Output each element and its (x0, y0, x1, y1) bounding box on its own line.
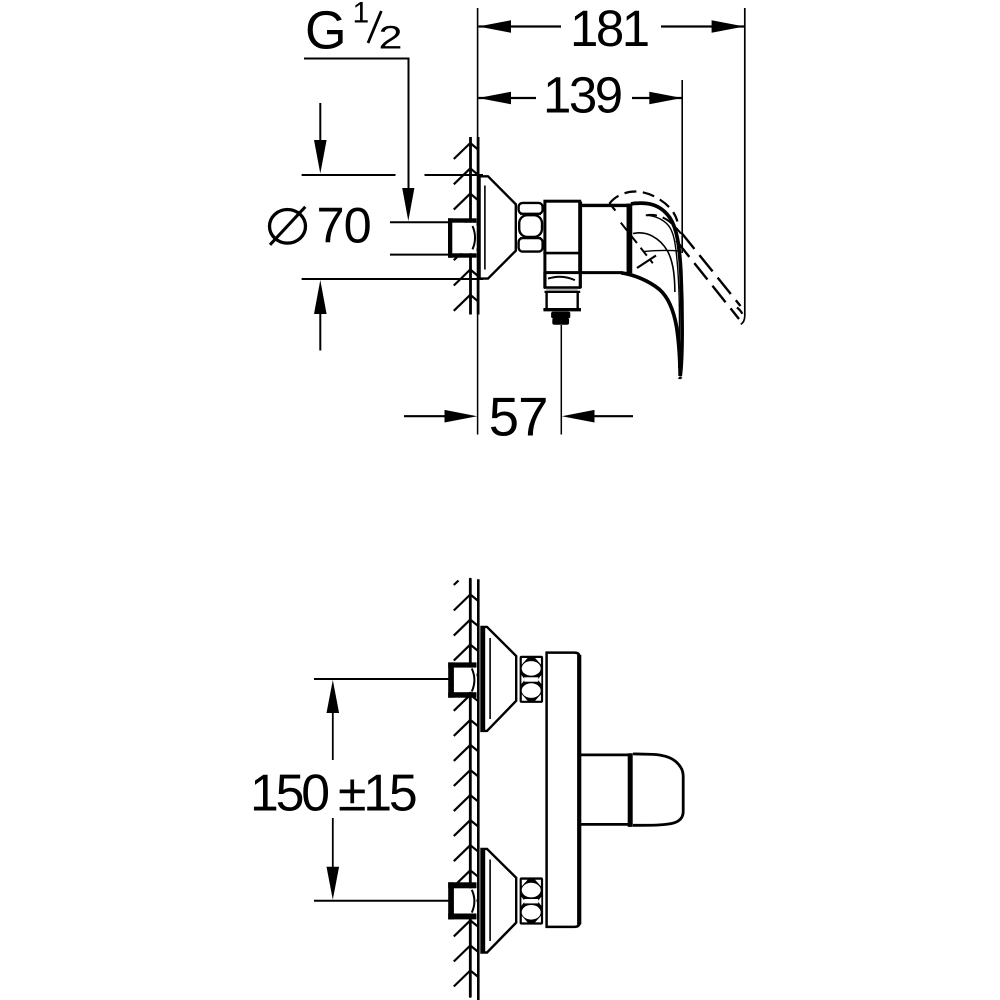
leader arrow G1/2 (402, 188, 414, 221)
lower union nut (bottom view) (520, 877, 544, 924)
svg-text:139: 139 (543, 67, 621, 124)
outlet ring gray band (546, 289, 578, 291)
dashed hidden edge (621, 223, 653, 264)
extension line right 181 (741, 8, 745, 324)
extension line right 139 (681, 80, 683, 253)
wall line outer (top view) (469, 137, 472, 315)
wall line outer (bottom view) (469, 579, 472, 996)
svg-text:57: 57 (489, 387, 548, 448)
escutcheon back face (477, 176, 481, 279)
upper escutcheon cone (bottom view) (482, 627, 517, 732)
dashed handle edge upper (681, 233, 740, 307)
union nut side ticks (521, 214, 540, 238)
dimension O70 bottom extension line (302, 278, 483, 280)
valve body separator (579, 202, 582, 273)
svg-text:G: G (305, 2, 347, 61)
upper union nut (bottom view) (520, 656, 544, 703)
outlet nipple (threaded) (551, 312, 570, 319)
wall fitting (S-union socket, top view) (448, 218, 477, 257)
wall line inner (bottom view) (477, 579, 480, 1000)
lever handle (top view, solid) (621, 203, 682, 378)
dashed handle edge lower (676, 241, 739, 320)
lower escutcheon cone (bottom view) (482, 849, 517, 953)
svg-text:150 ±15: 150 ±15 (250, 764, 416, 822)
lever inner contour lower (633, 233, 675, 292)
lever raised position (dashed) (609, 191, 742, 319)
lever inner line (inside top edge) (646, 215, 680, 368)
dashed knob tip (737, 308, 742, 314)
extension line wall (left, upper) (477, 8, 479, 137)
dimension O70 top extension line (302, 174, 483, 176)
supply pipe stub (390, 222, 449, 254)
lever top edge (631, 203, 682, 376)
dimension 181 left arrow (478, 20, 511, 33)
handle neck (bottom view) (581, 755, 631, 825)
dimension O70 upper arrow (319, 103, 321, 140)
valve body (top view) (545, 201, 580, 272)
outlet ring line 2 (545, 291, 581, 293)
svg-text:181: 181 (570, 0, 648, 57)
valve body divider line (543, 252, 580, 255)
escutcheon cone (top view) (479, 176, 516, 279)
dimension 139 right arrow (649, 92, 682, 105)
lever tip (679, 376, 682, 379)
svg-text:70: 70 (317, 196, 371, 253)
wall hatching (top view) (454, 143, 478, 311)
extension line wall lower (to 57 dim) (477, 315, 479, 435)
wall line inner (top view) (477, 137, 480, 315)
mixer body plate (bottom view) (547, 653, 580, 927)
dimension 150 lower extension line (314, 900, 449, 902)
hatch stub at wall top (bottom view) (454, 581, 459, 586)
dashed arc start barb (609, 203, 615, 210)
outlet box (547, 293, 578, 308)
upper wall fitting (bottom view) (448, 662, 476, 697)
lever crease line (643, 250, 681, 251)
dimension 181 right arrow (712, 20, 745, 33)
dimension 57 left arrow (445, 410, 478, 423)
cartridge housing top edge (580, 204, 627, 207)
dimension 139 left arrow (478, 92, 511, 105)
dimension O70 text (270, 210, 306, 244)
svg-text:1: 1 (353, 0, 370, 29)
body plate front face (thick) (577, 655, 581, 925)
wall hatching (bottom view) (454, 595, 479, 987)
dashed arc mid (646, 215, 681, 234)
outlet ring line 1 (544, 286, 581, 289)
escutcheon highlight line (484, 186, 486, 270)
outlet box bottom flange (543, 308, 581, 311)
leader line G1/2 (304, 59, 409, 190)
shower outlet side walls (545, 273, 580, 289)
dimension 150 vertical line lower + arrow (332, 818, 334, 868)
dashed arc top (610, 191, 678, 221)
dimension 139 line (479, 97, 682, 99)
lever underside edge (621, 273, 680, 376)
dimension O70 bottom arrow (314, 280, 327, 314)
dashed tick (637, 256, 656, 269)
label G 1/2 thread (305, 0, 403, 61)
cartridge housing bottom edge (580, 271, 622, 274)
dimension 57 extension line (outlet axis) (560, 325, 562, 435)
svg-text:2: 2 (379, 20, 403, 56)
joint line body/handle (627, 204, 633, 274)
dimension 181 line (479, 25, 745, 27)
dimension 150 vertical line upper + arrow (332, 712, 334, 760)
shower outlet dome (548, 277, 575, 280)
handle joint line (bottom view) (628, 753, 633, 827)
lower wall fitting (bottom view) (448, 882, 476, 919)
dimension 150 upper extension line (314, 678, 449, 680)
dimension 57 line (404, 415, 633, 417)
union nut (top view) (519, 203, 543, 252)
dimension 57 right arrow (562, 410, 595, 423)
handle knob (bottom view) (633, 754, 683, 825)
